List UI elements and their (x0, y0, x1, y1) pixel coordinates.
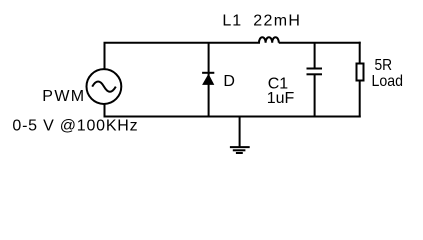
svg-text:D: D (223, 73, 235, 90)
svg-text:Load: Load (372, 73, 404, 90)
svg-text:0-5 V @100KHz: 0-5 V @100KHz (12, 118, 137, 135)
resistor R1 (5R load) (357, 42, 364, 118)
ground (230, 117, 250, 154)
svg-text:22mH: 22mH (253, 13, 300, 30)
wire: top rail right segment (inductor to top-right corner) (279, 42, 361, 44)
wire: top-left vertical from top rail down to source top (104, 43, 106, 69)
wire: bottom rail (104, 116, 361, 118)
capacitor C1 (307, 43, 323, 117)
svg-text:5R: 5R (375, 57, 393, 74)
inductor L1 (259, 37, 279, 43)
svg-text:PWM: PWM (42, 88, 84, 105)
diode D (202, 43, 214, 117)
svg-text:L1: L1 (222, 13, 241, 30)
svg-text:1uF: 1uF (267, 90, 295, 107)
wire: top rail left segment (corner to inductor) (104, 42, 261, 44)
voltage source V1 (PWM) (87, 69, 122, 104)
wire: source bottom stem (104, 104, 106, 117)
